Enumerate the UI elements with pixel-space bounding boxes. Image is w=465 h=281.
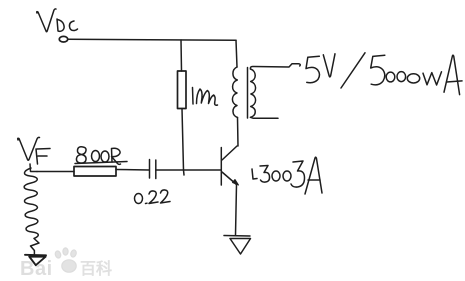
svg-text:Bai: Bai	[20, 258, 53, 280]
transformer T1 primary winding	[232, 67, 237, 118]
transistor Q1 base bar	[220, 148, 222, 186]
wire top rail	[68, 39, 236, 40]
transistor Q1 emitter stroke	[222, 172, 237, 185]
label VF	[18, 137, 50, 164]
resistor R 1M body	[178, 71, 187, 109]
ground right bar	[224, 235, 250, 238]
svg-text:百科: 百科	[80, 259, 112, 278]
label Vdc	[37, 9, 78, 32]
wire secondary bottom stub	[251, 116, 279, 119]
squiggle resistor below VF	[24, 168, 39, 255]
wire primary bottom to collector	[237, 118, 240, 147]
wire secondary top to output	[250, 64, 300, 69]
label 1M	[193, 88, 218, 106]
transistor Q1 collector stroke	[222, 146, 237, 160]
ground left bar	[25, 254, 46, 257]
terminal circle Vdc	[59, 36, 67, 42]
label 0.22	[135, 190, 171, 204]
label 800R with underline	[75, 147, 127, 165]
wire top rail corner down to transformer	[236, 40, 237, 67]
watermark Baidu paw toes	[54, 248, 77, 272]
wire R 1M lower lead	[182, 109, 184, 176]
capacitor C 0.22 plates	[149, 160, 151, 179]
transformer T1 secondary winding	[251, 69, 256, 117]
label 5V/500mA	[306, 53, 462, 95]
ground right triangle	[230, 239, 251, 255]
transistor Q1 emitter arrowhead	[233, 180, 239, 186]
transformer core	[247, 68, 249, 119]
wire branch to R 1M	[180, 40, 183, 71]
wire base branch horizontal	[37, 171, 74, 173]
resistor R 800R body	[74, 167, 116, 177]
label 13003A	[252, 157, 322, 194]
wire resistor to capacitor	[116, 169, 149, 172]
ground left triangle	[29, 257, 45, 266]
wire capacitor to base	[156, 169, 221, 171]
wire VF node down and right	[30, 164, 37, 172]
wire emitter down	[236, 185, 237, 236]
